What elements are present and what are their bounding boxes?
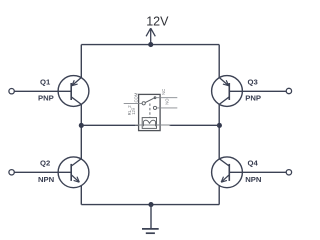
- transistor Q2: [58, 157, 89, 188]
- relay RL2 coil box: [142, 118, 156, 129]
- junction ground: [148, 202, 153, 207]
- svg-text:12v: 12v: [131, 107, 136, 115]
- wire Q2 base lead: [14, 171, 71, 173]
- power 12V arrow: [146, 28, 155, 44]
- svg-text:PNP: PNP: [245, 94, 261, 103]
- wire top rail: [81, 44, 219, 46]
- transistor Q3: [212, 76, 243, 107]
- svg-text:Q2: Q2: [40, 159, 50, 168]
- relay RL2 switch blade: [145, 98, 153, 102]
- terminal Q2 base: [9, 170, 14, 175]
- relay RL2 coil pin wire: [135, 124, 171, 126]
- terminal Q3 base: [286, 88, 291, 93]
- terminal Q4 base: [286, 170, 291, 175]
- svg-text:COM: COM: [133, 92, 138, 102]
- ground: [142, 205, 159, 234]
- relay RL2 pin COM contact: [142, 102, 145, 105]
- relay RL2 pin NO stub: [157, 107, 178, 109]
- svg-text:Q1: Q1: [40, 77, 51, 86]
- terminal Q1 base: [9, 89, 14, 94]
- wire left column mid: [80, 104, 82, 159]
- wire mid right to relay coil: [170, 124, 220, 126]
- wire Q1 base lead: [14, 90, 71, 92]
- relay RL2 pin NC stub: [155, 97, 177, 99]
- svg-text:NO: NO: [165, 98, 170, 105]
- svg-text:NPN: NPN: [245, 175, 262, 184]
- junction 12V rail: [148, 42, 153, 47]
- junction right mid: [217, 123, 222, 128]
- relay RL2 pin NO contact: [153, 106, 156, 109]
- wire Q3 base lead: [229, 90, 286, 92]
- svg-text:NC: NC: [161, 89, 166, 95]
- svg-text:12V: 12V: [146, 15, 169, 29]
- relay RL2 pin COM stub: [124, 102, 142, 104]
- wire left column top: [80, 45, 82, 78]
- transistor Q4: [212, 157, 243, 188]
- wire bottom rail: [81, 204, 219, 206]
- wire mid left to relay coil: [81, 124, 138, 126]
- wire left column bottom: [80, 186, 82, 205]
- relay RL2 coil winding: [143, 120, 155, 126]
- svg-text:PNP: PNP: [38, 94, 54, 103]
- relay RL2 body: [139, 94, 161, 130]
- transistor Q1: [58, 76, 89, 107]
- wire right column mid: [218, 104, 220, 159]
- wire right column top: [218, 45, 220, 78]
- svg-text:Q3: Q3: [248, 77, 258, 86]
- relay RL2 actuator link: [149, 104, 151, 118]
- relay RL2 pin NC contact: [154, 96, 157, 99]
- wire right column bottom: [218, 186, 220, 205]
- wire Q4 base lead: [229, 171, 286, 173]
- junction left mid: [79, 123, 84, 128]
- svg-text:Q4: Q4: [248, 159, 259, 168]
- svg-text:NPN: NPN: [38, 175, 55, 184]
